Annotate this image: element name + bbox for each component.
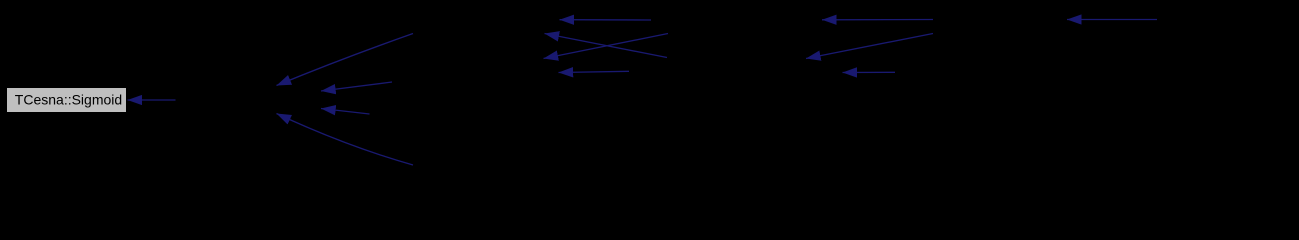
svg-text:TCesna::Sigmoid: TCesna::Sigmoid <box>15 92 122 108</box>
